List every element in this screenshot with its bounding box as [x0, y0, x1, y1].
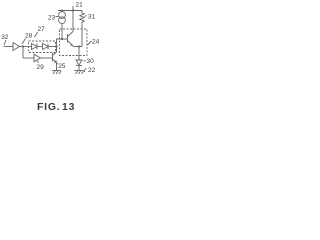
- svg-text:FIG.: FIG.: [37, 102, 60, 113]
- junction dot rail/current source: [61, 9, 63, 11]
- label 29: [37, 64, 45, 71]
- diode D1: [29, 46, 32, 48]
- leader for 32: [4, 40, 6, 45]
- svg-text:25: 25: [58, 63, 66, 70]
- svg-text:23: 23: [48, 14, 56, 21]
- ground 22: [75, 70, 84, 72]
- node 28 junction dot: [22, 45, 24, 47]
- svg-text:13: 13: [62, 102, 75, 113]
- wire node up to base of Q24: [57, 39, 68, 52]
- leader for 25: [56, 61, 58, 65]
- svg-text:31: 31: [88, 13, 96, 20]
- transistor Q25: [52, 53, 54, 62]
- leader for 27: [35, 32, 38, 37]
- dashed box 27 around diode string: [29, 41, 56, 53]
- terminal 21 stub: [72, 6, 74, 11]
- transistor Q24: [67, 34, 69, 43]
- label 25: [58, 63, 66, 70]
- wire D1 to D2: [37, 46, 43, 48]
- junction dot rail/21: [72, 9, 74, 11]
- diode D30: [76, 60, 82, 65]
- label 21: [76, 2, 84, 9]
- leader for 28: [22, 39, 26, 45]
- junction dot base node: [61, 38, 63, 40]
- buffer U2 (29): [34, 54, 41, 62]
- wire input to buffer 28: [4, 46, 14, 48]
- svg-text:29: 29: [37, 64, 45, 71]
- leader for 30: [84, 60, 86, 62]
- svg-text:30: 30: [87, 58, 95, 65]
- buffer U1 (node 28): [13, 43, 20, 51]
- label 31: [88, 13, 96, 20]
- wire node 28 down: [22, 47, 24, 59]
- wire to buffer 29: [23, 57, 34, 59]
- label 23: [48, 14, 56, 21]
- wire rail down to Q24 collector: [72, 11, 74, 32]
- diode D2: [43, 44, 49, 50]
- dashed box 24: [60, 29, 88, 56]
- svg-text:32: 32: [1, 34, 9, 41]
- junction dot diode output node: [55, 45, 57, 47]
- svg-text:27: 27: [38, 26, 46, 33]
- label 30: [87, 58, 95, 65]
- wire D2 to node: [48, 46, 57, 48]
- label 22: [88, 67, 96, 74]
- power rail from node 21: [58, 10, 82, 12]
- node 32 input terminal label: [1, 34, 9, 41]
- wire node down to collector of Q25: [56, 47, 58, 53]
- wire buffer output to node 28: [20, 46, 30, 48]
- junction dot emitter node: [78, 45, 80, 47]
- ground under Q25: [52, 70, 61, 72]
- leader for 31: [85, 16, 87, 17]
- svg-text:21: 21: [76, 2, 84, 9]
- resistor R31: [80, 11, 84, 47]
- svg-text:22: 22: [88, 67, 96, 74]
- label 28: [25, 33, 33, 40]
- svg-text:28: 28: [25, 33, 33, 40]
- wire diode to ground 22: [78, 66, 80, 71]
- svg-text:24: 24: [92, 39, 100, 46]
- leader for 22: [84, 69, 86, 73]
- label 27: [38, 26, 46, 33]
- wire current source down to base node: [61, 24, 63, 39]
- wire output down through box: [78, 47, 80, 61]
- label 24: [92, 39, 100, 46]
- leader for 29: [38, 61, 39, 64]
- wire Q24 emitter node: [73, 46, 82, 48]
- wire buffer 29 to base of Q25: [41, 57, 53, 59]
- wire Q25 emitter to ground: [56, 63, 58, 71]
- leader for 24: [88, 41, 92, 45]
- figure caption FIG.13: [37, 102, 75, 113]
- leader for 23: [56, 16, 59, 18]
- current source 23: [59, 12, 66, 19]
